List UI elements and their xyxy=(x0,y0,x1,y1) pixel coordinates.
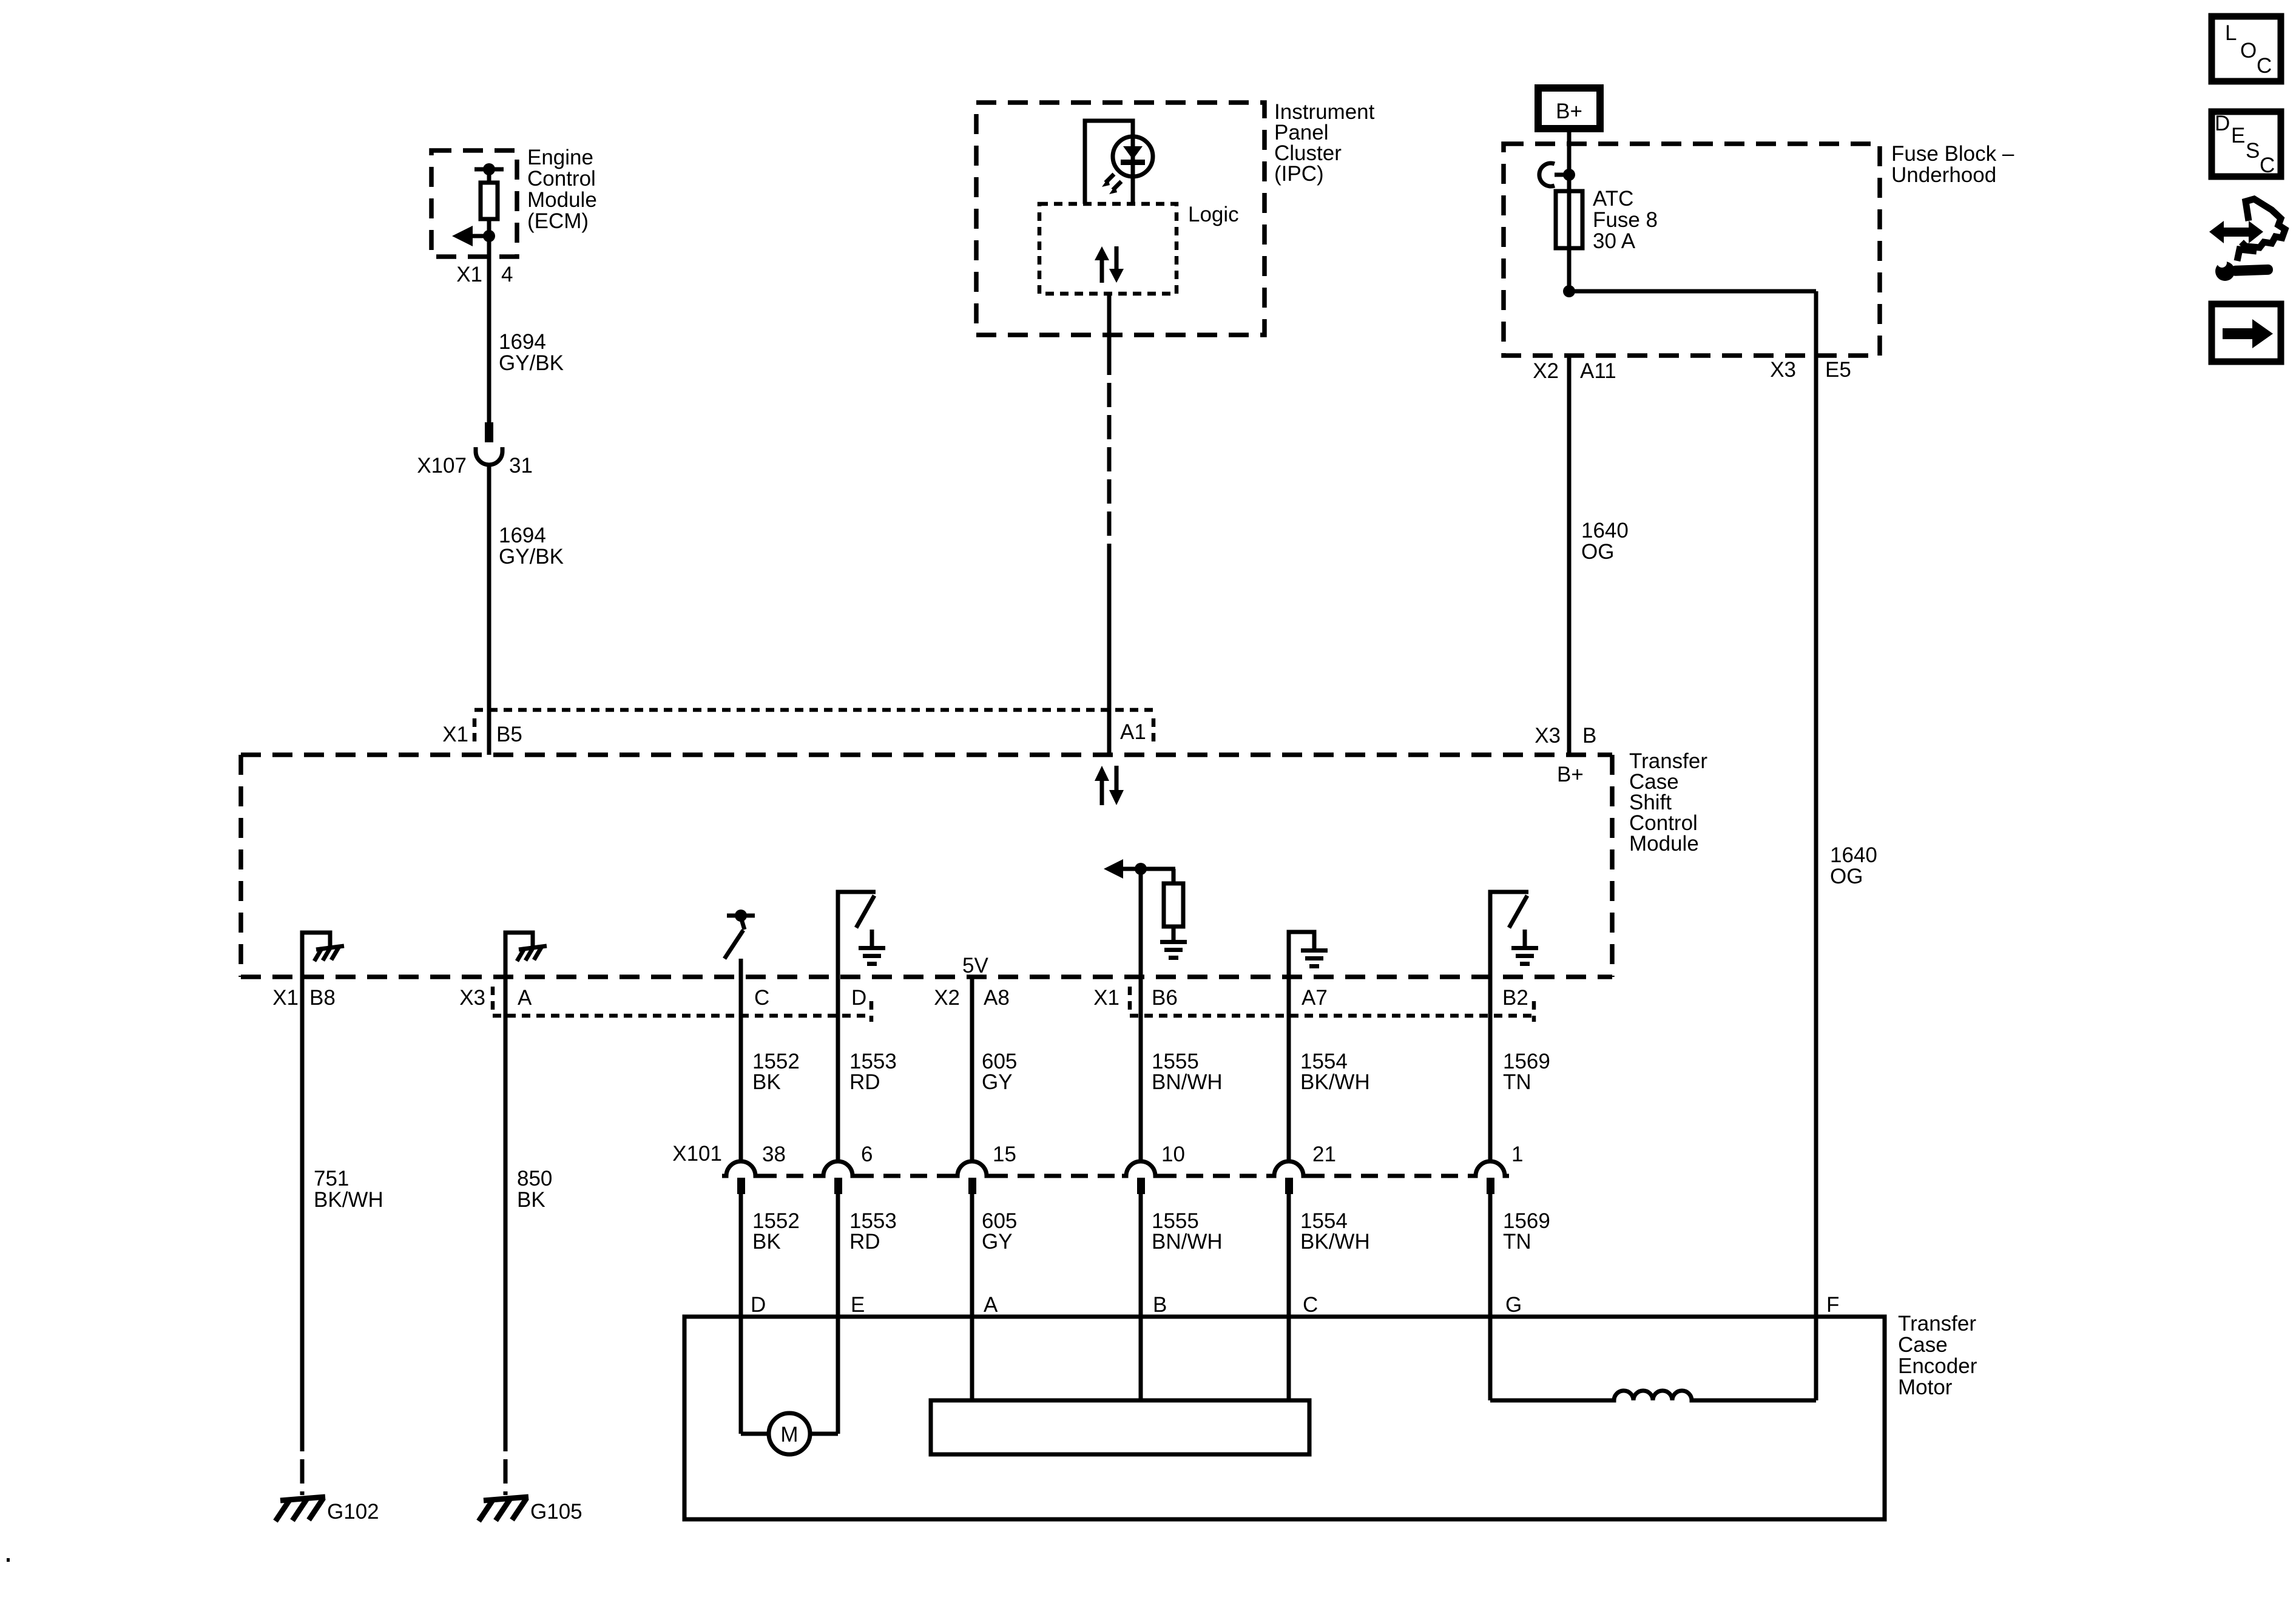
X101 terminal 10 xyxy=(1122,1143,1185,1194)
svg-text:OG: OG xyxy=(1581,540,1614,564)
logic box xyxy=(1039,204,1177,294)
module bottom labels X1 | B6 xyxy=(1093,986,1178,1010)
IPC label xyxy=(1274,100,1375,186)
chassis ground (pin A) xyxy=(505,933,547,977)
wire B+ into fuse block xyxy=(1567,129,1572,291)
wire pin B6 to X101-10 xyxy=(1139,869,1143,1162)
svg-text:21: 21 xyxy=(1312,1143,1336,1166)
switch to ground (pin B2) xyxy=(1490,892,1538,977)
svg-text:1640: 1640 xyxy=(1830,843,1877,867)
svg-text:C: C xyxy=(1303,1293,1318,1317)
wire ECM pin 4 to splice xyxy=(487,236,491,422)
Instrument Panel Cluster box xyxy=(976,103,1264,335)
wire label 1554 BK/WH (lower) xyxy=(1300,1209,1370,1254)
svg-text:X1: X1 xyxy=(1093,986,1119,1010)
X101 terminal 38 xyxy=(722,1143,786,1194)
svg-text:B6: B6 xyxy=(1152,986,1178,1010)
svg-text:D: D xyxy=(851,986,866,1010)
svg-text:GY: GY xyxy=(982,1230,1013,1254)
svg-text:Control: Control xyxy=(527,167,596,191)
svg-text:E: E xyxy=(2231,124,2245,147)
svg-text:E5: E5 xyxy=(1825,358,1851,382)
svg-text:B8: B8 xyxy=(309,986,336,1010)
svg-text:C: C xyxy=(2260,154,2275,177)
wire label 1694 GY/BK (lower) xyxy=(499,524,564,569)
wire label 605 GY (upper) xyxy=(982,1050,1017,1094)
svg-text:B5: B5 xyxy=(496,723,522,746)
wire label 605 GY (lower) xyxy=(982,1209,1017,1254)
resistor (ECM internal) xyxy=(481,169,498,236)
svg-text:G: G xyxy=(1505,1293,1522,1317)
wire IPC hidden (dashed) xyxy=(1107,351,1112,558)
connector label X3 | B xyxy=(1535,724,1596,748)
X101 terminal 1 xyxy=(1471,1143,1523,1194)
svg-text:X1: X1 xyxy=(442,723,468,746)
svg-text:L: L xyxy=(2225,21,2237,45)
wire label 1569 TN (lower) xyxy=(1503,1209,1550,1254)
svg-text:BK/WH: BK/WH xyxy=(1300,1230,1370,1254)
in-line connector X107 pin 31 xyxy=(476,422,502,465)
svg-text:38: 38 xyxy=(762,1143,786,1166)
svg-text:Fuse 8: Fuse 8 xyxy=(1593,208,1658,232)
connector label A1 xyxy=(1120,720,1146,744)
ground G105 xyxy=(479,1497,582,1524)
svg-text:F: F xyxy=(1826,1293,1839,1317)
wire fuse to module pin B xyxy=(1567,356,1572,755)
svg-text:RD: RD xyxy=(849,1070,880,1094)
X101 terminal 21 xyxy=(1270,1143,1336,1194)
svg-text:BN/WH: BN/WH xyxy=(1152,1230,1223,1254)
svg-text:(IPC): (IPC) xyxy=(1274,162,1324,186)
ECM label xyxy=(527,146,597,233)
wire label 1694 GY/BK (upper) xyxy=(499,330,564,375)
X101 terminal 15 xyxy=(953,1143,1016,1194)
svg-text:Case: Case xyxy=(1898,1333,1948,1357)
svg-text:1694: 1694 xyxy=(499,524,546,547)
svg-text:GY/BK: GY/BK xyxy=(499,545,564,569)
wire label 1553 RD (upper) xyxy=(849,1050,897,1094)
wire pin A7 to X101-21 xyxy=(1287,932,1291,1162)
wire label 1552 BK (upper) xyxy=(752,1050,800,1094)
svg-text:GY: GY xyxy=(982,1070,1013,1094)
chassis ground (pin B8) xyxy=(302,933,344,977)
wire splice X107 to module pin B5 xyxy=(487,465,491,755)
Transfer Case Shift Control Module box xyxy=(241,755,1612,977)
icon connector service (wrench) xyxy=(2215,258,2273,281)
svg-text:OG: OG xyxy=(1830,865,1863,888)
wire pin B8 to G102 xyxy=(300,977,305,1495)
svg-text:10: 10 xyxy=(1161,1143,1185,1166)
module label xyxy=(1629,749,1707,856)
connector X101 band xyxy=(760,1174,1471,1178)
wire X101-15 to encoder A xyxy=(970,1193,974,1400)
wire label 1555 BN/WH (lower) xyxy=(1152,1209,1223,1254)
earth ground (pin A7) xyxy=(1289,932,1328,977)
wire 1640 OG right branch xyxy=(1814,291,1818,1400)
svg-text:TN: TN xyxy=(1503,1070,1531,1094)
svg-text:X107: X107 xyxy=(417,454,467,478)
svg-text:X3: X3 xyxy=(1770,358,1796,382)
svg-text:M: M xyxy=(780,1423,798,1447)
switch (pin C) xyxy=(724,910,755,959)
svg-text:Module: Module xyxy=(1629,832,1699,856)
module bottom label A7 xyxy=(1302,986,1328,1010)
svg-text:D: D xyxy=(2215,112,2230,135)
module bottom label B2 xyxy=(1502,986,1528,1010)
ATC Fuse 8 30A xyxy=(1556,191,1582,248)
svg-text:6: 6 xyxy=(861,1143,873,1166)
svg-text:X2: X2 xyxy=(1533,359,1559,383)
connector X1 band (module top) xyxy=(474,710,1153,746)
indicator lamp wire loop xyxy=(1085,121,1133,204)
icon DESC box xyxy=(2212,112,2281,177)
svg-text:4: 4 xyxy=(501,263,513,286)
wire X101-21 to encoder C xyxy=(1287,1193,1291,1400)
wire pin B2 to X101-1 xyxy=(1488,892,1493,1162)
module bottom labels X1 | B8 xyxy=(272,986,336,1010)
X101 terminal 6 xyxy=(819,1143,873,1194)
svg-text:A1: A1 xyxy=(1120,720,1146,744)
wire pin A8 to X101-15 xyxy=(970,977,974,1162)
svg-text:Underhood: Underhood xyxy=(1891,163,1996,187)
svg-text:B: B xyxy=(1153,1293,1167,1317)
connector label X1 | B5 xyxy=(442,723,522,746)
svg-text:Encoder: Encoder xyxy=(1898,1354,1977,1378)
svg-text:X1: X1 xyxy=(272,986,299,1010)
wire pin A to G105 xyxy=(504,977,508,1495)
encoder motor coil xyxy=(1490,1391,1816,1400)
svg-text:RD: RD xyxy=(849,1230,880,1254)
svg-text:X3: X3 xyxy=(1535,724,1561,748)
svg-text:X101: X101 xyxy=(672,1142,722,1166)
svg-text:B2: B2 xyxy=(1502,986,1528,1010)
Engine Control Module box xyxy=(431,150,517,257)
svg-text:Transfer: Transfer xyxy=(1898,1312,1976,1335)
svg-text:C: C xyxy=(754,986,769,1010)
connector label X2 | A11 xyxy=(1533,359,1616,383)
motor M xyxy=(741,1413,838,1454)
icon connector service (plug outline) xyxy=(2237,199,2285,261)
svg-text:C: C xyxy=(2257,54,2272,78)
Fuse Block - Underhood box xyxy=(1504,144,1880,356)
module A1 up/down arrows xyxy=(1095,766,1124,805)
connector label X3 | E5 xyxy=(1770,358,1851,382)
svg-text:BK: BK xyxy=(752,1070,781,1094)
Transfer Case Encoder Motor box xyxy=(684,1317,1885,1519)
connector label X101 xyxy=(672,1142,722,1166)
svg-text:Module: Module xyxy=(527,188,597,212)
svg-text:1: 1 xyxy=(1511,1143,1523,1166)
ECM signal arrow xyxy=(452,226,495,246)
svg-text:A: A xyxy=(518,986,532,1010)
wire label 1555 BN/WH (upper) xyxy=(1152,1050,1223,1094)
wire pin D to X101-6 xyxy=(836,977,840,1162)
svg-text:S: S xyxy=(2246,139,2260,163)
wire pin C to X101-38 xyxy=(739,959,743,1162)
svg-text:O: O xyxy=(2240,39,2257,62)
wire label 1552 BK (lower) xyxy=(752,1209,800,1254)
Logic label xyxy=(1188,203,1239,226)
battery feed B+ xyxy=(1538,88,1600,129)
wire label 1553 RD (lower) xyxy=(849,1209,897,1254)
module bottom label C xyxy=(754,986,769,1010)
icon arrow box xyxy=(2212,304,2281,362)
svg-text:31: 31 xyxy=(509,454,533,478)
wire label 850 BK xyxy=(517,1167,552,1212)
wire X101-38 to encoder D xyxy=(739,1193,743,1434)
wire label 1640 OG (right) xyxy=(1830,843,1877,888)
svg-text:B+: B+ xyxy=(1557,763,1584,786)
earth ground (resistor) xyxy=(1160,940,1187,960)
wire IPC logic to A1 (solid) xyxy=(1107,294,1112,351)
wire label 1554 BK/WH (upper) xyxy=(1300,1050,1370,1094)
wire label 1640 OG (left) xyxy=(1581,519,1629,564)
svg-text:BN/WH: BN/WH xyxy=(1152,1070,1223,1094)
wire IPC to module pin A1 xyxy=(1107,558,1112,755)
Fuse Block label xyxy=(1891,142,2014,187)
svg-text:Motor: Motor xyxy=(1898,1376,1953,1399)
svg-text:TN: TN xyxy=(1503,1230,1531,1254)
wire X101-6 to encoder E xyxy=(836,1193,840,1434)
wire label 1569 TN (upper) xyxy=(1503,1050,1550,1094)
svg-text:Engine: Engine xyxy=(527,146,593,169)
module bottom label D xyxy=(851,986,866,1010)
svg-text:A: A xyxy=(984,1293,998,1317)
svg-text:B+: B+ xyxy=(1556,100,1582,123)
svg-text:15: 15 xyxy=(993,1143,1016,1166)
svg-text:A7: A7 xyxy=(1302,986,1328,1010)
icon connector service (double arrow) xyxy=(2209,221,2263,243)
svg-text:X1: X1 xyxy=(456,263,482,286)
ground G102 xyxy=(275,1497,379,1524)
indicator lamp (LED) xyxy=(1113,135,1153,204)
svg-text:A11: A11 xyxy=(1580,359,1616,383)
svg-text:5V: 5V xyxy=(962,954,988,977)
svg-text:Fuse Block –: Fuse Block – xyxy=(1891,142,2014,166)
svg-text:G102: G102 xyxy=(327,1500,379,1524)
svg-text:(ECM): (ECM) xyxy=(527,209,589,233)
junction fuse output xyxy=(1563,285,1816,297)
fuse label xyxy=(1593,187,1658,253)
wire X101-1 to encoder G xyxy=(1488,1193,1493,1400)
svg-text:BK: BK xyxy=(517,1188,545,1212)
module bottom labels X3 | A xyxy=(459,986,532,1010)
module 5V reference arrow xyxy=(1104,859,1175,879)
icon LOC box xyxy=(2212,16,2281,81)
label 5V xyxy=(962,954,988,977)
svg-text:B: B xyxy=(1582,724,1596,748)
connector X3 band (below module) xyxy=(493,987,871,1022)
module pull-up resistor xyxy=(1164,869,1183,940)
logic up/down arrows xyxy=(1095,246,1124,283)
svg-text:A8: A8 xyxy=(984,986,1010,1010)
encoder motor label xyxy=(1898,1312,1977,1399)
module bottom labels X2 | A8 xyxy=(934,986,1010,1010)
svg-text:1640: 1640 xyxy=(1581,519,1629,542)
connector X1 band (below module) xyxy=(1130,987,1534,1022)
lamp light rays xyxy=(1102,174,1121,194)
svg-text:E: E xyxy=(851,1293,865,1317)
wire X101-10 to encoder B xyxy=(1139,1193,1143,1400)
connector label X1 | 4 xyxy=(456,263,513,286)
fuse block terminal connector xyxy=(1539,163,1575,186)
tiny page mark xyxy=(7,1558,10,1562)
svg-text:X3: X3 xyxy=(459,986,485,1010)
svg-text:30 A: 30 A xyxy=(1593,229,1636,253)
svg-text:BK: BK xyxy=(752,1230,781,1254)
svg-text:BK/WH: BK/WH xyxy=(314,1188,383,1212)
ECM contact bar xyxy=(474,163,504,175)
wire label 751 BK/WH xyxy=(314,1167,383,1212)
encoder pin labels D E A B C G F xyxy=(751,1293,1839,1317)
switch to ground (pin D) xyxy=(838,892,885,977)
svg-text:G105: G105 xyxy=(530,1500,582,1524)
svg-text:Logic: Logic xyxy=(1188,203,1239,226)
encoder block xyxy=(931,1400,1309,1454)
svg-text:GY/BK: GY/BK xyxy=(499,351,564,375)
svg-text:D: D xyxy=(751,1293,766,1317)
svg-text:X2: X2 xyxy=(934,986,960,1010)
svg-text:BK/WH: BK/WH xyxy=(1300,1070,1370,1094)
svg-text:850: 850 xyxy=(517,1167,552,1190)
label B+ inside module xyxy=(1557,763,1584,786)
connector label X107 | 31 xyxy=(417,454,533,478)
svg-text:1694: 1694 xyxy=(499,330,546,354)
svg-text:751: 751 xyxy=(314,1167,349,1190)
svg-text:ATC: ATC xyxy=(1593,187,1633,211)
